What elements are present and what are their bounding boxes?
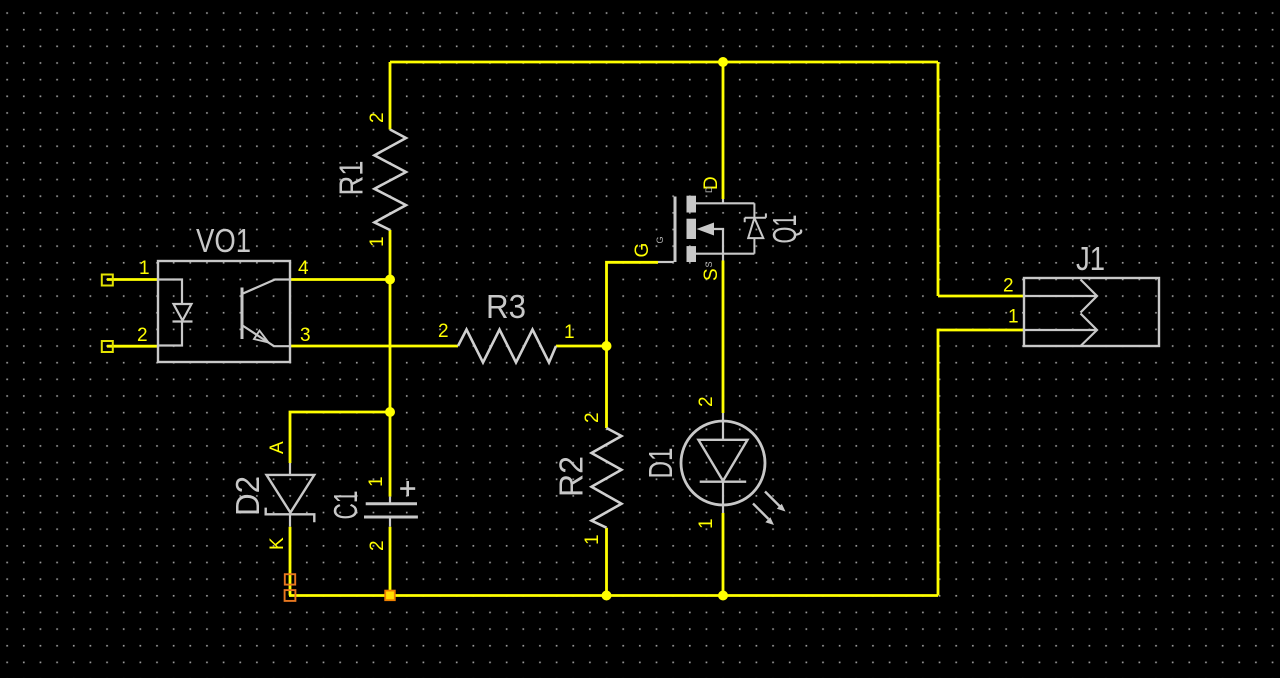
svg-text:3: 3	[300, 325, 311, 346]
pin number C1-2	[367, 540, 388, 551]
pin number R1-2	[367, 112, 388, 123]
resistor R1	[374, 130, 406, 231]
pin number C1-1	[366, 476, 387, 487]
resistor R2	[592, 428, 622, 528]
LED D1	[681, 413, 765, 513]
svg-text:2: 2	[582, 412, 603, 423]
resistor R3	[458, 330, 556, 363]
wire VO1 pin3 to R3	[290, 345, 458, 348]
svg-text:D1: D1	[642, 448, 679, 479]
wire R3 to node	[556, 345, 607, 348]
wire D2 cathode bottom	[289, 527, 292, 596]
wire J1 pin2	[938, 295, 1023, 298]
label R2	[553, 456, 590, 497]
wire bottom rail	[289, 594, 938, 597]
terminal square input 2	[102, 341, 113, 352]
svg-text:1: 1	[1008, 307, 1019, 328]
wire R2 bottom	[605, 528, 608, 596]
junction node D2 anode / C1	[385, 407, 395, 417]
junction node LED / bottom rail	[718, 591, 728, 601]
pin number VO1-3	[300, 325, 311, 346]
svg-text:Q1: Q1	[766, 215, 803, 244]
pin number J1-1	[1008, 307, 1019, 328]
wire VO1 pin4 to node	[290, 278, 390, 281]
optocoupler VO1 internal LED	[158, 280, 193, 346]
svg-text:1: 1	[564, 322, 575, 343]
pin name D2 A	[267, 441, 288, 454]
svg-text:D2: D2	[229, 476, 266, 516]
transistor Q1 MOSFET	[658, 196, 754, 262]
pin number D1-1	[696, 518, 717, 529]
svg-text:D: D	[704, 186, 714, 193]
pin number R1-1	[367, 236, 388, 247]
svg-text:J1: J1	[1076, 240, 1105, 277]
pin number VO1-2	[137, 325, 148, 346]
unconnected marker D2 cathode	[285, 574, 295, 584]
pin number J1-2	[1003, 276, 1014, 297]
svg-text:G: G	[632, 243, 653, 258]
junction node R3 / gate net	[602, 341, 612, 351]
LED D1 emission arrows	[753, 492, 786, 526]
label R3	[486, 288, 526, 325]
pin number VO1-1	[139, 258, 150, 279]
svg-text:1: 1	[366, 476, 387, 487]
wire D2 anode	[290, 412, 390, 463]
pin number R2-1	[582, 534, 603, 545]
pin name Q1 S yellow	[701, 268, 722, 281]
svg-text:K: K	[267, 537, 288, 550]
svg-text:2: 2	[696, 396, 717, 407]
unconnected marker bottom rail left end	[285, 590, 296, 601]
wire top rail	[390, 61, 938, 64]
label C1	[327, 491, 364, 520]
label VO1	[196, 222, 251, 259]
wire Q1 source to LED	[722, 261, 725, 414]
wire Q1 drain	[722, 62, 725, 199]
svg-text:S: S	[704, 261, 714, 267]
wire R1 top	[389, 62, 392, 130]
wire right vertical lower	[938, 330, 1023, 596]
pin number VO1-4	[298, 258, 309, 279]
transistor Q1 body diode	[745, 203, 766, 253]
pin name Q1 G gray	[655, 236, 665, 243]
terminal square input 1	[102, 275, 113, 286]
junction node top rail / drain	[718, 57, 728, 67]
svg-text:2: 2	[367, 112, 388, 123]
svg-text:4: 4	[298, 258, 309, 279]
pin number R3-1	[564, 322, 575, 343]
label Q1	[766, 215, 803, 244]
wire right vertical upper	[937, 62, 940, 296]
label D1	[642, 448, 679, 479]
svg-text:R2: R2	[553, 456, 590, 497]
capacitor C1	[364, 481, 418, 527]
connector J1 pin2 contact	[1024, 280, 1097, 313]
svg-text:G: G	[655, 236, 665, 243]
svg-text:R1: R1	[333, 161, 370, 196]
svg-text:1: 1	[696, 518, 717, 529]
pin name Q1 S gray	[704, 261, 714, 267]
pin name D2 K	[267, 537, 288, 550]
pin number R2-2	[582, 412, 603, 423]
pin name Q1 G yellow	[632, 243, 653, 258]
svg-text:2: 2	[1003, 276, 1014, 297]
wire R1 bottom vertical	[389, 230, 392, 497]
wire input pin2	[107, 345, 158, 348]
pin name Q1 D yellow	[701, 176, 722, 190]
junction node R2 / bottom rail	[602, 591, 612, 601]
junction node VO1 pin4 / R1	[385, 275, 395, 285]
svg-text:2: 2	[367, 540, 388, 551]
connector J1 body	[1024, 278, 1159, 346]
svg-text:2: 2	[438, 321, 449, 342]
label D2	[229, 476, 266, 516]
wire C1 bottom	[389, 527, 392, 596]
pin number R3-2	[438, 321, 449, 342]
svg-text:R3: R3	[486, 288, 526, 325]
wire gate net	[607, 262, 659, 428]
connector J1 pin1 contact	[1024, 314, 1097, 347]
wire input pin1	[107, 278, 158, 281]
optocoupler VO1 body	[158, 261, 290, 362]
svg-text:1: 1	[582, 534, 603, 545]
svg-text:1: 1	[139, 258, 150, 279]
svg-text:C1: C1	[327, 491, 364, 520]
svg-text:2: 2	[137, 325, 148, 346]
label J1	[1076, 240, 1105, 277]
pin name Q1 D gray	[704, 186, 714, 193]
pin number D1-2	[696, 396, 717, 407]
diode D2 zener	[266, 463, 315, 527]
svg-text:A: A	[267, 441, 288, 454]
svg-text:S: S	[701, 268, 722, 281]
svg-text:VO1: VO1	[196, 222, 251, 259]
svg-text:1: 1	[367, 236, 388, 247]
wire LED bottom	[722, 513, 725, 596]
junction node C1 / bottom rail with unconnected marker	[385, 591, 395, 601]
label R1	[333, 161, 370, 196]
optocoupler VO1 phototransistor	[242, 280, 290, 347]
